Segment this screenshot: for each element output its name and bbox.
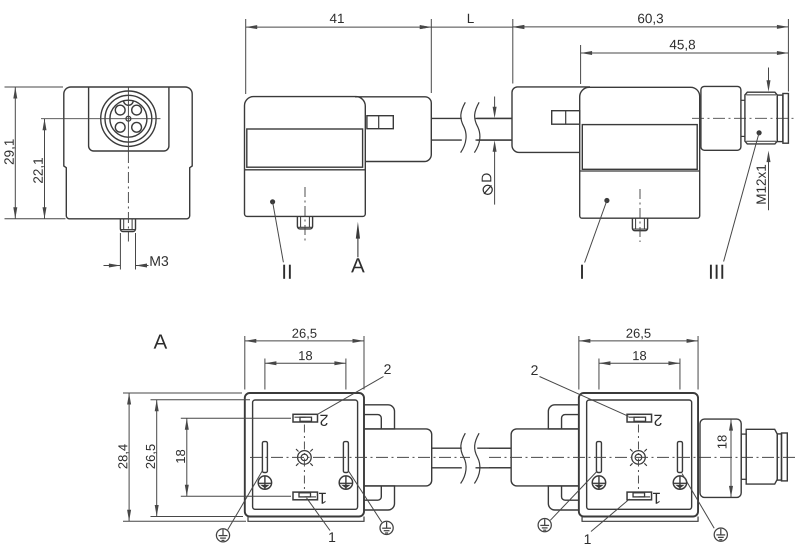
front view: horizontal centerline [41, 118, 161, 120]
br earth left [550, 471, 597, 520]
br label 1 [585, 534, 591, 544]
view I: label band [582, 125, 697, 170]
bl dim 28,4 [123, 392, 242, 394]
label III [757, 131, 761, 135]
dimension 29,1 [14, 87, 16, 219]
br M12 adapter neck [700, 419, 741, 497]
front view: pin hole bottom-right [132, 122, 142, 132]
cable break curves top row [461, 102, 466, 152]
M12 tip ring [777, 95, 783, 142]
bl dim 18 top [264, 359, 266, 390]
br M12 tip ring [777, 434, 781, 480]
dimension 41 [245, 19, 247, 94]
view arrow A [356, 222, 360, 239]
dimension 60,3 [513, 26, 789, 28]
dimension diameter D [494, 97, 496, 109]
bottom-left square interior [245, 393, 364, 521]
view II: cable [431, 117, 462, 119]
br M12 nut [746, 429, 777, 484]
dimension 22,1 [44, 119, 46, 219]
M12 groove [741, 99, 745, 101]
view I: cable gland boot [512, 87, 590, 152]
front view: connector body outline [64, 87, 192, 219]
dimension L [431, 26, 513, 28]
front view: M12 middle circle [105, 95, 152, 142]
view II: cable gland boot [355, 97, 431, 162]
bl earth left [228, 470, 263, 530]
dimension M12x1 [768, 68, 770, 82]
bottom cable left [432, 447, 462, 449]
front view: pin hole top-right [132, 105, 142, 115]
bottom-right horizontal centerline [489, 456, 795, 458]
front view: vertical centerline [127, 88, 129, 153]
br label 2 [531, 365, 537, 375]
M12 thread barrel [745, 92, 777, 144]
bottom-left horizontal centerline [250, 456, 470, 458]
label I [605, 198, 609, 202]
bottom-right clips and boot (mirrored) [511, 405, 579, 510]
view II: stud centerline [304, 187, 306, 241]
view I: M12 axis centerline [692, 117, 794, 119]
front view: M3 stud [120, 219, 135, 232]
front view: pin hole top-left [115, 105, 125, 115]
view II: latch tab [367, 116, 393, 129]
front view: M12 face recess [89, 87, 169, 151]
view I: M3 stud [632, 218, 647, 231]
view II: M3 stud [297, 216, 312, 229]
cable mid segment [477, 117, 512, 119]
front view: center pin [126, 116, 131, 121]
view I: cable [476, 117, 513, 119]
bl dim 26,5 top [244, 336, 246, 390]
bottom-right square interior [579, 393, 698, 521]
M12 tip disc [783, 94, 789, 144]
bottom cable right [489, 447, 511, 449]
dimension 45,8 [580, 45, 582, 84]
br M12 tip disc [782, 433, 788, 481]
front view: coding notch [124, 100, 134, 105]
br dim 18 right [730, 419, 732, 497]
bottom-left clips and boot [364, 405, 432, 510]
dimension M3 [119, 233, 121, 270]
front view: M12 inner circle [110, 100, 147, 137]
label II [271, 200, 275, 204]
br dim 26,5 [578, 336, 580, 390]
view I: stud centerline [639, 189, 641, 242]
br dim 18 top [598, 359, 600, 390]
view II: body joint line [245, 169, 366, 171]
view I: body joint line [580, 170, 700, 172]
bl dim 18 left [181, 417, 291, 419]
M12 coupling nut [701, 86, 741, 150]
view I: connector body [580, 87, 700, 218]
view I: latch tab [552, 111, 580, 125]
cable break curves bottom row [461, 433, 466, 483]
bl label 1 [329, 532, 335, 542]
bl earth right [349, 471, 382, 522]
view II: label band [247, 129, 363, 167]
bl dim 26,5 left [151, 399, 251, 401]
bottom cable mid [477, 447, 511, 449]
br M12 groove [741, 434, 746, 479]
front view: M12 outer circle [101, 91, 156, 146]
view II: connector body [245, 97, 366, 217]
view A label [154, 334, 168, 348]
br earth right [682, 474, 714, 529]
bl label 2 [384, 364, 390, 374]
front view: pin hole bottom-left [115, 122, 125, 132]
